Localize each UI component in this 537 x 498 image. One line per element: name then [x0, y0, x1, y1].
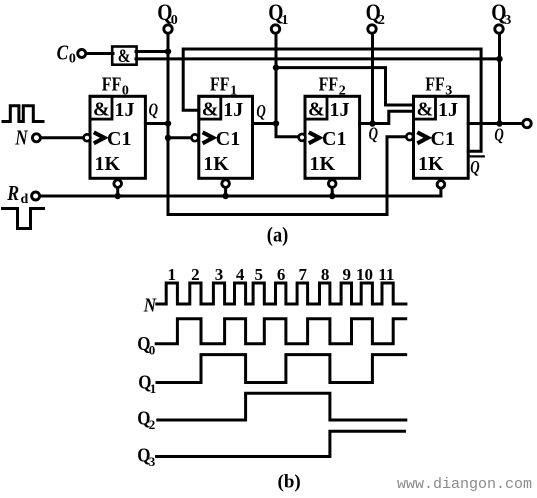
svg-text:R: R: [6, 183, 19, 206]
pulse symbol at N input: [3, 106, 43, 122]
junction node Q3 to AND gate: [496, 56, 502, 62]
wire line B Q3 input to AND gate: [136, 57, 500, 60]
svg-text:1J: 1J: [223, 99, 243, 121]
clock edge arrow FF2: [309, 132, 320, 143]
junction node Q0 output: [165, 120, 171, 126]
svg-text:C1: C1: [216, 128, 240, 150]
svg-text:FF: FF: [319, 73, 339, 95]
svg-text:Q: Q: [149, 101, 158, 121]
svg-text:1: 1: [230, 84, 237, 99]
svg-text:1: 1: [150, 381, 157, 396]
svg-text:N: N: [14, 127, 28, 150]
wire FF1 K stub: [224, 188, 227, 196]
junction node Q1 output: [273, 120, 279, 126]
svg-text:C1: C1: [107, 128, 131, 150]
svg-text:(a): (a): [267, 223, 289, 246]
terminal N: [32, 134, 40, 142]
terminal Q3: [495, 25, 503, 33]
waveform Q1: [157, 355, 406, 383]
junction node Q2 output: [369, 120, 375, 126]
svg-text:2: 2: [191, 265, 200, 284]
wire node Q0 vertical: [167, 33, 170, 215]
svg-text:1: 1: [281, 13, 288, 28]
svg-text:1J: 1J: [115, 99, 135, 121]
svg-text:2: 2: [339, 84, 346, 99]
svg-text:1J: 1J: [330, 99, 350, 121]
svg-text:1: 1: [168, 265, 177, 284]
svg-text:9: 9: [342, 265, 351, 284]
svg-text:Q: Q: [494, 125, 503, 145]
wire node Q2 vertical: [371, 33, 374, 124]
svg-text:1J: 1J: [438, 99, 458, 121]
junction node Q0 to FF1 clock: [165, 135, 171, 141]
svg-text:N: N: [143, 294, 157, 317]
wire FF0 K stub: [116, 188, 119, 196]
wire node Q1 vertical to FF2 clock: [276, 33, 299, 137]
svg-text:2: 2: [149, 417, 156, 432]
AND input block of FF0: [90, 96, 112, 119]
svg-text:3: 3: [149, 454, 156, 469]
svg-text:3: 3: [504, 13, 511, 28]
svg-text:&: &: [308, 98, 325, 120]
svg-text:8: 8: [321, 265, 330, 284]
svg-text:1K: 1K: [203, 153, 229, 175]
K bottom circle FF2: [328, 180, 336, 188]
terminal Q1: [271, 25, 279, 33]
junction FF0 K on Rd line: [115, 193, 121, 199]
junction node Q3 output: [496, 120, 502, 126]
terminal Q0: [164, 25, 172, 33]
wire AND output line A to Q0 node: [136, 50, 168, 53]
svg-text:0: 0: [122, 84, 129, 99]
junction FF1 K on Rd line: [222, 193, 228, 199]
wire node Q3 vertical: [498, 33, 501, 124]
clock edge arrow FF0: [94, 132, 105, 143]
svg-text:&: &: [417, 98, 434, 120]
wire NOT-Q3 feedback line: [183, 49, 481, 151]
svg-text:0: 0: [69, 51, 76, 66]
clock input circle FF3: [406, 133, 413, 140]
wire N to FF0 clock: [41, 136, 84, 139]
terminal Rd: [32, 192, 40, 200]
pulse numbers 1-11: [168, 265, 395, 284]
svg-text:Q: Q: [256, 102, 265, 122]
AND input block of FF2: [305, 96, 327, 119]
wire Q1 to FF3 J input: [276, 68, 414, 105]
junction node Q1 to FF3 J: [273, 64, 279, 70]
wire FF0 Q output: [145, 122, 168, 125]
wire Q0 node to FF1 clock: [168, 136, 191, 139]
svg-text:3: 3: [215, 265, 224, 284]
clock input circle FF1: [192, 134, 199, 141]
svg-text:0: 0: [171, 13, 178, 28]
svg-text:FF: FF: [210, 73, 230, 95]
svg-text:3: 3: [445, 84, 452, 99]
svg-text:Q: Q: [470, 158, 479, 178]
wire FF3 K stub: [439, 188, 442, 196]
svg-text:5: 5: [254, 265, 263, 284]
svg-text:www.diangon.com: www.diangon.com: [397, 476, 532, 493]
wire bottom feed to FF3 clock: [168, 137, 406, 215]
svg-text:FF: FF: [102, 73, 122, 95]
wire FF2 Q output to FF3 J input: [360, 111, 414, 123]
clock edge arrow FF1: [203, 132, 214, 143]
AND input block of FF1: [199, 96, 221, 119]
flip-flop FF1 box: [199, 96, 253, 178]
flip-flop FF2 box: [305, 96, 360, 178]
terminal circles: [32, 25, 532, 200]
flip-flop FF0 box: [90, 96, 145, 178]
svg-text:1K: 1K: [95, 153, 121, 175]
svg-text:Q: Q: [369, 124, 378, 144]
junction node Q0 to AND gate: [165, 48, 171, 54]
clock input circle FF0: [84, 134, 91, 141]
terminal Q2: [368, 25, 376, 33]
svg-text:0: 0: [149, 342, 156, 357]
waveform Q0: [156, 319, 406, 344]
svg-text:FF: FF: [425, 73, 445, 95]
svg-text:&: &: [202, 98, 219, 120]
svg-text:2: 2: [378, 13, 385, 28]
AND input block of FF3: [414, 96, 436, 119]
junction FF2 K on Rd line: [329, 193, 335, 199]
svg-text:&: &: [118, 45, 131, 66]
K bottom circle FF0: [114, 180, 122, 188]
pulse symbol at Rd input (negative pulse): [3, 209, 44, 229]
terminal output right: [523, 119, 531, 127]
svg-text:&: &: [93, 98, 110, 120]
K bottom circle FF1: [222, 180, 230, 188]
svg-text:d: d: [21, 192, 29, 207]
svg-text:7: 7: [298, 265, 307, 284]
svg-text:C1: C1: [431, 128, 455, 150]
K bottom circle FF3: [437, 181, 445, 189]
AND gate G1 (carry output C0): [112, 47, 136, 65]
svg-text:(b): (b): [278, 472, 301, 493]
svg-text:10: 10: [356, 265, 373, 284]
waveform Q2: [158, 393, 406, 420]
wire FF3 Q output to terminal: [468, 122, 523, 125]
waveform Q3: [157, 431, 405, 456]
clock input circle FF2: [299, 134, 306, 141]
svg-text:6: 6: [277, 265, 286, 284]
svg-text:C: C: [57, 42, 69, 65]
svg-text:1K: 1K: [418, 153, 444, 175]
wire FF1 Q output: [253, 122, 277, 125]
terminal C0: [78, 50, 86, 58]
clock edge arrow FF3: [417, 132, 428, 143]
svg-text:C1: C1: [322, 128, 346, 150]
svg-text:1K: 1K: [310, 153, 336, 175]
wire FF2 K stub: [331, 188, 334, 196]
waveform N clock: [157, 283, 406, 304]
svg-text:4: 4: [236, 265, 245, 284]
wire C0 to AND gate: [86, 52, 113, 55]
svg-text:11: 11: [378, 265, 394, 284]
wire Rd reset line: [41, 195, 441, 198]
flip-flop FF3 box: [414, 96, 469, 178]
